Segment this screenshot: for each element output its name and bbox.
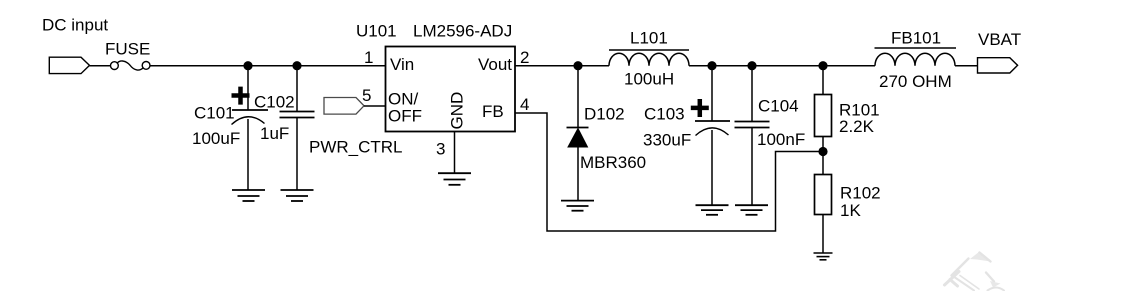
value 1K [840, 201, 861, 220]
svg-text:5: 5 [362, 86, 371, 105]
label U101 [356, 22, 397, 41]
value 270 OHM [879, 72, 952, 91]
svg-text:LM2596-ADJ: LM2596-ADJ [413, 22, 512, 41]
svg-text:FUSE: FUSE [105, 40, 150, 59]
pin number 3 [436, 140, 445, 159]
connector VBAT [978, 58, 1018, 73]
svg-text:U101: U101 [356, 22, 397, 41]
pin number 4 [520, 95, 529, 114]
label FUSE [105, 40, 150, 59]
pin number 5 [362, 86, 371, 105]
IC U101 LM2596-ADJ [386, 47, 516, 132]
connector PWR_CTRL [324, 98, 364, 115]
capacitor C103 [691, 66, 730, 205]
label R102 [840, 184, 881, 203]
svg-text:100uH: 100uH [624, 70, 674, 89]
node VBAT [978, 30, 1021, 49]
ground U101 [438, 173, 471, 185]
svg-text:MBR360: MBR360 [580, 153, 646, 172]
svg-text:270 OHM: 270 OHM [879, 72, 952, 91]
inductor L101 [609, 50, 689, 66]
junction node C103 [707, 61, 716, 70]
pin name Vin [390, 55, 414, 74]
wire L101 to FB101 [689, 65, 875, 67]
svg-text:L101: L101 [630, 29, 668, 48]
junction node C104 [747, 61, 756, 70]
svg-text:1uF: 1uF [260, 124, 289, 143]
svg-text:3: 3 [436, 140, 445, 159]
wire PWR_CTRL to pin 5 [364, 105, 386, 107]
pin name ON/OFF [388, 90, 422, 126]
pin name FB [482, 102, 504, 121]
capacitor C104 [735, 66, 770, 205]
label C104 [758, 97, 799, 116]
pin name GND [448, 92, 467, 130]
resistor R102 [815, 152, 832, 254]
label PWR_CTRL [309, 138, 403, 157]
pin number 2 [520, 48, 529, 67]
junction node R101 top [818, 61, 827, 70]
value 330uF [643, 131, 691, 150]
value 100nF [757, 130, 805, 149]
wire FB101 to VBAT [955, 65, 978, 67]
ground C103 [696, 205, 729, 215]
svg-text:DC input: DC input [42, 16, 108, 35]
ferrite bead FB101 [875, 48, 957, 66]
label LM2596-ADJ [413, 22, 512, 41]
label C101 [194, 104, 235, 123]
label D102 [584, 105, 625, 124]
svg-text:1K: 1K [840, 201, 861, 220]
label C102 [254, 93, 295, 112]
svg-text:2.2K: 2.2K [839, 117, 875, 136]
svg-text:OFF: OFF [388, 107, 422, 126]
ground R102 [814, 253, 833, 260]
label FB101 [891, 29, 941, 48]
svg-text:GND: GND [448, 92, 467, 130]
svg-text:FB101: FB101 [891, 29, 941, 48]
wire pin 3 to ground [454, 132, 456, 174]
resistor R101 [815, 66, 832, 152]
wire Vout pin 2 to L101 [515, 65, 609, 67]
svg-text:C103: C103 [644, 105, 685, 124]
svg-text:4: 4 [520, 95, 529, 114]
svg-text:PWR_CTRL: PWR_CTRL [309, 138, 403, 157]
wire fuse to U101 Vin pin 1 [150, 65, 386, 67]
junction node FB divider [818, 147, 827, 156]
value 2.2K [839, 117, 875, 136]
fuse FUSE [111, 61, 151, 70]
wire FB net pin 4 to divider [515, 113, 823, 231]
svg-text:100nF: 100nF [757, 130, 805, 149]
junction node C102 [292, 61, 301, 70]
value 1uF [260, 124, 289, 143]
svg-text:C102: C102 [254, 93, 295, 112]
svg-text:R102: R102 [840, 184, 881, 203]
label R101 [839, 101, 880, 120]
ground C101 [232, 190, 265, 201]
ground C102 [281, 190, 314, 201]
value 100uH [624, 70, 674, 89]
junction node C101 [243, 61, 252, 70]
capacitor C101 [232, 66, 269, 190]
capacitor C102 [280, 66, 315, 190]
ground C104 [735, 205, 768, 215]
svg-text:C104: C104 [758, 97, 799, 116]
watermark [945, 252, 1005, 291]
connector DC input [49, 57, 89, 73]
ground D102 [561, 201, 594, 211]
pin number 1 [364, 48, 373, 67]
value 100uF [192, 129, 240, 148]
svg-text:C101: C101 [194, 104, 235, 123]
svg-text:Vout: Vout [478, 55, 512, 74]
label C103 [644, 105, 685, 124]
diode D102 [567, 66, 589, 201]
svg-text:330uF: 330uF [643, 131, 691, 150]
svg-text:2: 2 [520, 48, 529, 67]
svg-text:FB: FB [482, 102, 504, 121]
node DC input [42, 16, 108, 35]
value MBR360 [580, 153, 646, 172]
junction node D102 [573, 61, 582, 70]
svg-text:1: 1 [364, 48, 373, 67]
wire DC input to fuse [90, 65, 111, 67]
svg-text:VBAT: VBAT [978, 30, 1021, 49]
svg-text:D102: D102 [584, 105, 625, 124]
label L101 [630, 29, 668, 48]
svg-text:Vin: Vin [390, 55, 414, 74]
pin name Vout [478, 55, 512, 74]
svg-text:100uF: 100uF [192, 129, 240, 148]
